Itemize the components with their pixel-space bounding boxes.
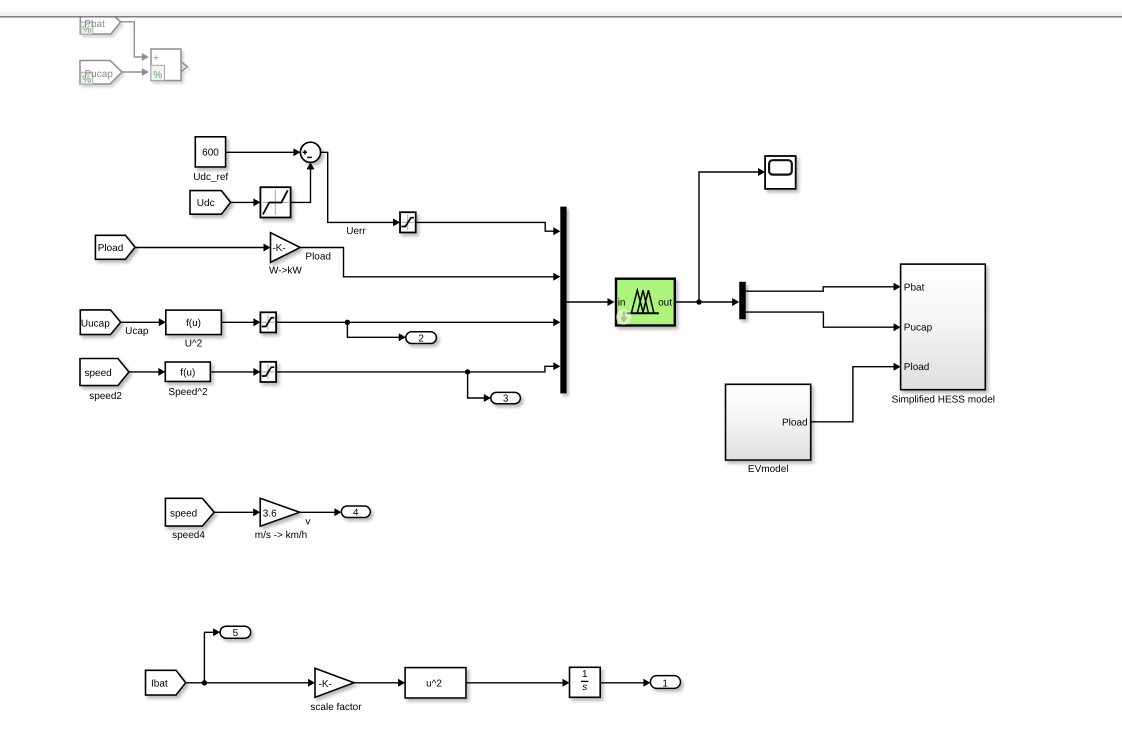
svg-text:1: 1 xyxy=(582,669,588,680)
svg-text:EVmodel: EVmodel xyxy=(748,464,789,475)
wire fcn to saturation2 xyxy=(221,318,260,326)
svg-text:2: 2 xyxy=(418,333,424,344)
outport 3 xyxy=(491,392,521,404)
scope block xyxy=(765,156,796,189)
wire u^2 to integrator xyxy=(466,679,570,687)
gain scale factor xyxy=(315,668,354,697)
wire Ibat junction and branch to outport 5 xyxy=(186,628,220,685)
toolbar strip xyxy=(0,12,1122,17)
wire Uucap to fcn U^2 xyxy=(121,318,166,326)
svg-text:Ibat: Ibat xyxy=(151,679,168,690)
svg-text:1: 1 xyxy=(662,679,668,690)
wire Pbat to sum xyxy=(121,22,149,61)
svg-text:-K-: -K- xyxy=(319,679,332,690)
svg-text:f(u): f(u) xyxy=(186,318,201,329)
svg-text:+: + xyxy=(153,53,159,64)
saturation block 3 xyxy=(260,362,276,382)
svg-text:scale factor: scale factor xyxy=(310,702,362,713)
outport 2 xyxy=(406,332,437,345)
saturation block 1 xyxy=(400,212,416,232)
wire demux to Pbat port xyxy=(746,283,901,291)
wire gain to u^2 xyxy=(354,679,405,687)
toolbar divider line xyxy=(0,16,1122,17)
svg-text:Pload: Pload xyxy=(98,243,124,254)
saturation block 2 xyxy=(260,312,276,332)
outport 1 xyxy=(650,676,680,690)
svg-text:Pbat: Pbat xyxy=(904,282,925,293)
branch wire to outport 3 xyxy=(468,372,491,402)
svg-text:Speed^2: Speed^2 xyxy=(168,387,208,398)
demux bar xyxy=(739,282,746,320)
commented-out tag Pbat xyxy=(80,14,120,36)
gain m/s to km/h xyxy=(260,498,300,526)
wire Udc to dead zone xyxy=(231,198,261,206)
wire saturation1 to mux xyxy=(416,222,561,235)
fcn block U^2 xyxy=(166,310,222,335)
commented-out tag Pucap xyxy=(80,61,122,86)
svg-text:Uerr: Uerr xyxy=(346,226,366,237)
subsystem EVmodel xyxy=(726,384,811,460)
wire speed4 to gain xyxy=(214,508,260,516)
svg-text:u^2: u^2 xyxy=(426,679,442,690)
outport 4 xyxy=(341,506,370,519)
wire Ibat to gain scale factor xyxy=(204,679,315,687)
svg-text:3.6: 3.6 xyxy=(263,508,277,519)
wire junction to scope xyxy=(699,168,765,302)
svg-text:Pload: Pload xyxy=(904,362,930,373)
wire fcn to saturation3 xyxy=(210,368,260,376)
wire saturation3 to mux with junction xyxy=(276,362,560,374)
wire Pucap to sum xyxy=(122,68,149,76)
wire gain to outport 4 with label v xyxy=(300,508,342,516)
gain W->kW xyxy=(271,233,301,263)
wire integrator to outport 1 xyxy=(600,679,650,687)
svg-text:out: out xyxy=(658,298,672,309)
svg-text:%: % xyxy=(153,70,162,81)
wire speed2 to fcn Speed^2 xyxy=(129,368,165,376)
wire demux to Pucap port xyxy=(746,312,901,331)
wire Pload to gain xyxy=(135,244,270,252)
tag Udc xyxy=(190,191,231,215)
wire 600 to sum xyxy=(226,148,301,156)
svg-text:Pucap: Pucap xyxy=(904,323,933,334)
tag speed (speed2) xyxy=(80,359,129,386)
svg-text:speed2: speed2 xyxy=(89,391,122,402)
integrator 1/s xyxy=(570,667,601,697)
svg-text:Udc: Udc xyxy=(197,198,215,209)
svg-text:3: 3 xyxy=(503,394,509,405)
svg-text:5: 5 xyxy=(233,628,239,639)
dead zone block xyxy=(260,187,290,217)
svg-text:Udc_ref: Udc_ref xyxy=(193,172,228,183)
svg-text:in: in xyxy=(618,298,626,309)
svg-text:f(u): f(u) xyxy=(180,367,195,378)
wire dead zone to sum xyxy=(291,162,315,202)
math function block u^2 xyxy=(405,668,466,698)
wire sum to saturation Uerr xyxy=(321,152,400,226)
commented-out sum block xyxy=(151,49,187,81)
tag Ibat xyxy=(146,670,186,695)
wire fuzzy to demux with junction xyxy=(675,298,739,306)
svg-text:Pload: Pload xyxy=(782,417,808,428)
svg-text:Uucap: Uucap xyxy=(81,318,110,329)
svg-text:U^2: U^2 xyxy=(185,338,203,349)
svg-text:s: s xyxy=(582,682,587,693)
svg-text:Ucap: Ucap xyxy=(125,326,149,337)
wire mux to fuzzy controller xyxy=(567,298,615,306)
tag speed (speed4) xyxy=(165,498,214,526)
fcn block Speed^2 xyxy=(165,362,210,382)
svg-text:speed: speed xyxy=(170,508,197,519)
svg-text:W->kW: W->kW xyxy=(269,266,302,277)
wire gain to mux with label Pload xyxy=(300,248,560,281)
svg-text:Simplified HESS model: Simplified HESS model xyxy=(892,395,995,406)
mux bar xyxy=(560,207,566,394)
branch wire to outport 2 xyxy=(347,322,405,341)
outport 5 xyxy=(220,626,251,639)
constant 600 xyxy=(195,137,225,167)
svg-text:4: 4 xyxy=(353,508,359,519)
svg-text:m/s -> km/h: m/s -> km/h xyxy=(255,530,308,541)
subsystem Simplified HESS model xyxy=(901,264,986,390)
sum junction U1 xyxy=(300,142,320,162)
wire saturation2 to mux with junction xyxy=(276,318,560,326)
svg-text:-K-: -K- xyxy=(272,243,285,254)
svg-text:Pucap: Pucap xyxy=(85,69,114,80)
tag Uucap xyxy=(80,310,120,335)
svg-text:Pload: Pload xyxy=(305,252,331,263)
svg-text:Pbat: Pbat xyxy=(84,19,105,30)
svg-text:600: 600 xyxy=(202,148,219,159)
wire EVmodel to Pload port xyxy=(811,363,901,422)
tag Pload xyxy=(95,235,135,259)
svg-text:speed4: speed4 xyxy=(172,530,205,541)
fuzzy logic controller block xyxy=(616,279,675,326)
svg-text:speed: speed xyxy=(85,368,112,379)
svg-text:v: v xyxy=(305,517,310,528)
